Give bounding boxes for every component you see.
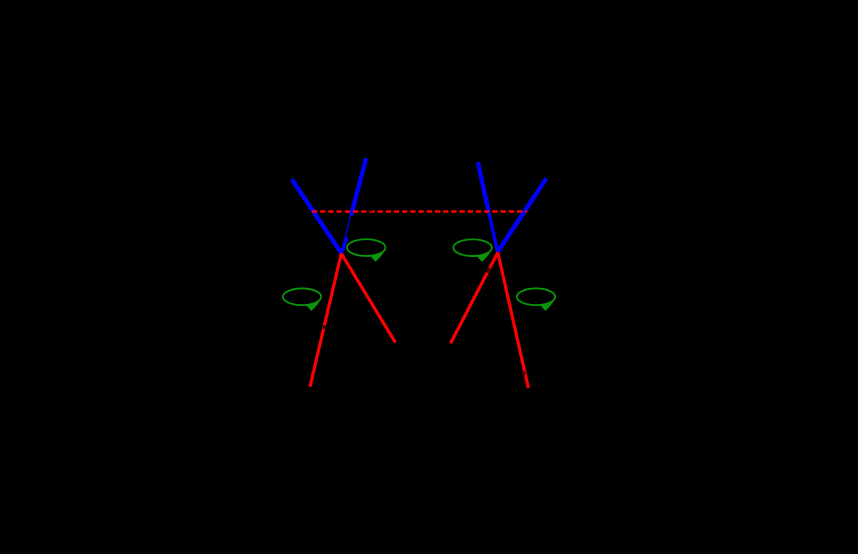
right vortex blue worldline up-right — [498, 178, 547, 252]
dark notch on right down-left red line — [487, 268, 489, 273]
right vortex blue worldline up-left lower segment — [489, 212, 498, 252]
black v-notch on dashed line arrow mark — [370, 209, 373, 212]
right vortex red worldline down-right — [498, 252, 529, 388]
red dashed exchange line — [312, 210, 527, 213]
left vortex blue worldline up-left — [292, 179, 341, 253]
green circulation loop lower left — [283, 288, 321, 310]
left vortex red worldline down-right — [341, 254, 395, 343]
dark notch on right down-right red line — [522, 371, 526, 375]
left vortex blue worldline up-right upper segment — [351, 158, 366, 215]
right vortex blue worldline up-left upper segment — [478, 162, 489, 211]
left vortex blue worldline up-right stub at vertex — [341, 238, 346, 254]
thin blue arrow shaft from left vertex to exchange line — [342, 210, 352, 251]
green circulation loop lower right — [517, 288, 555, 310]
thin blue arrow head — [350, 206, 354, 211]
dark notch on left down-left red line — [322, 325, 326, 329]
green circulation loop at left vertex right side — [347, 239, 385, 261]
right vortex red worldline down-left — [451, 252, 498, 343]
green circulation loop at right vertex left side — [453, 239, 491, 261]
left vortex red worldline down-left — [310, 254, 341, 387]
